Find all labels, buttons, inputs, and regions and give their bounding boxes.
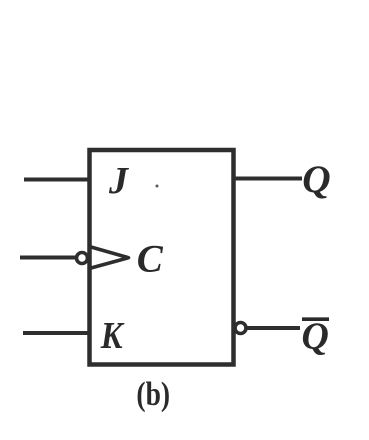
wire Qbar output [247, 326, 300, 330]
svg-text:Q: Q [302, 316, 329, 358]
svg-text:Q: Q [302, 157, 330, 201]
wire K input [23, 331, 89, 335]
edge-trigger triangle C [91, 247, 129, 268]
bubble C input [77, 253, 88, 264]
svg-text:(b): (b) [136, 374, 170, 412]
svg-text:C: C [137, 237, 164, 280]
svg-text:K: K [100, 315, 125, 357]
speck [156, 185, 159, 188]
wire J input [24, 178, 89, 182]
wire Q output [234, 177, 303, 181]
wire C input [20, 256, 76, 260]
flip-flop body U1 [90, 150, 234, 365]
overline of Qbar [302, 317, 329, 321]
bubble Qbar output [235, 323, 246, 334]
svg-text:J: J [108, 160, 129, 202]
